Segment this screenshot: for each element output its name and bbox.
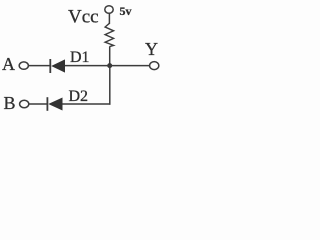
Vcc terminal: [105, 6, 113, 14]
wire B terminal to D2: [29, 103, 48, 105]
wire A terminal to D1: [29, 65, 51, 67]
wire Vcc terminal to resistor: [108, 13, 110, 24]
svg-text:Vcc: Vcc: [68, 7, 99, 28]
output Y terminal: [150, 62, 159, 70]
diode D1 triangle: [51, 59, 65, 72]
wire D1 to Y terminal: [65, 65, 150, 67]
diode D2 triangle: [48, 98, 62, 111]
svg-text:B: B: [4, 93, 16, 113]
wire D2 to corner: [63, 103, 111, 105]
svg-text:Y: Y: [145, 39, 158, 59]
input A terminal: [19, 62, 28, 69]
svg-text:D2: D2: [69, 88, 89, 105]
diode D1 cathode bar: [49, 59, 51, 73]
wire resistor to node: [109, 46, 111, 65]
diode D2 cathode bar: [46, 97, 48, 111]
svg-text:5v: 5v: [120, 4, 132, 18]
input B terminal: [20, 100, 29, 107]
node junction dot: [107, 63, 112, 68]
resistor R1: [105, 23, 114, 46]
svg-text:D1: D1: [70, 49, 90, 66]
wire corner up to node: [109, 66, 111, 105]
svg-text:A: A: [2, 54, 15, 74]
